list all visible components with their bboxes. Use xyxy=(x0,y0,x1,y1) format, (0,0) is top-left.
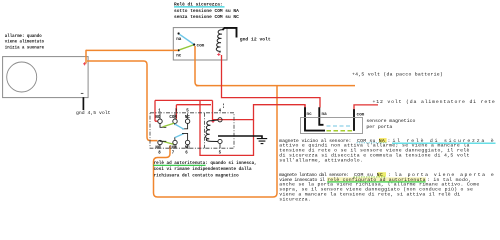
bottom pole cyan lever COM-NC xyxy=(175,134,184,138)
red wire: COM3 riser xyxy=(175,105,177,119)
pin4 top dash stub xyxy=(223,104,225,109)
dotted underline COM su NA xyxy=(357,142,387,144)
safety relay lever na-com (cyan, open) xyxy=(180,34,194,44)
sensor green dashed contact (nc position) xyxy=(327,130,353,132)
alarm - terminal xyxy=(81,92,84,94)
green underline relè configurato ad autoritenuta xyxy=(327,181,425,183)
yellow highlight NA xyxy=(379,138,387,143)
alarm + terminal xyxy=(83,62,86,65)
right paragraph 2 xyxy=(279,172,495,203)
alarm caption text xyxy=(5,34,45,51)
latching coil pin4 circle xyxy=(218,118,222,122)
bottom pole green lever COM-NO xyxy=(163,141,174,144)
sensor black wire nc xyxy=(305,107,325,130)
latching coil pin5 circle xyxy=(218,139,222,143)
svg-text:com: com xyxy=(357,113,365,118)
svg-text:richiusura del contatto magnet: richiusura del contatto magnetico xyxy=(154,173,240,178)
svg-text:sensore magnetico: sensore magnetico xyxy=(366,118,415,124)
pale highlight phrase xyxy=(327,177,426,181)
yellow highlight NC xyxy=(378,172,387,177)
orange wire: alarm+ to safety relay nc xyxy=(86,49,178,51)
safety relay title xyxy=(174,2,239,20)
svg-text:gnd 12 volt: gnd 12 volt xyxy=(240,37,271,43)
red wire: latching NO1 riser xyxy=(155,100,158,121)
sensor black wire na xyxy=(319,107,323,125)
red wire: safety coil to sensor na xyxy=(222,55,321,108)
latching coil + mark xyxy=(212,120,215,123)
svg-text:com: com xyxy=(197,44,205,49)
red wire: top link NO1-COM3-selfhold xyxy=(155,99,213,101)
svg-text:viene alimentato: viene alimentato xyxy=(5,40,45,45)
red wire: COM3 horizontal xyxy=(176,104,211,106)
ground symbol xyxy=(257,139,267,144)
bottom pole NC stub+foot xyxy=(182,133,188,140)
safety relay contact com xyxy=(193,43,195,45)
svg-text:allarme: quando: allarme: quando xyxy=(5,34,42,39)
safety relay contact na xyxy=(178,32,180,34)
svg-text:NO: NO xyxy=(155,146,160,150)
svg-text:sull'allarme, attivandolo.: sull'allarme, attivandolo. xyxy=(279,157,363,163)
sensor cyan dashed contact (na position) xyxy=(327,125,352,127)
svg-text:così vi rimane indipendentemen: così vi rimane indipendentemente dalla xyxy=(154,167,252,172)
latching relay internal divider xyxy=(204,113,206,148)
svg-text:senza tensione COM su NC: senza tensione COM su NC xyxy=(174,14,239,20)
svg-text:na: na xyxy=(322,112,328,117)
latching coil body xyxy=(206,120,218,142)
safety relay coil gnd wire xyxy=(223,28,237,38)
safety relay contact nc xyxy=(178,49,180,51)
black wire pin5 to ground xyxy=(218,136,262,138)
svg-text:nc: nc xyxy=(307,112,313,117)
svg-text:+12 volt (da alimentatore di r: +12 volt (da alimentatore di rete xyxy=(373,99,496,105)
top pin stubs xyxy=(160,114,188,119)
red wire: +12 to sensor com xyxy=(354,105,378,110)
alarm gnd wire xyxy=(82,97,84,110)
top pole green lever COM-NO xyxy=(163,123,174,127)
right paragraph 1 xyxy=(279,138,495,164)
svg-text:na: na xyxy=(176,37,182,42)
svg-text:gnd 4,5 volt: gnd 4,5 volt xyxy=(76,110,111,116)
safety relay U1 box xyxy=(173,28,227,60)
sensor red drop nc xyxy=(304,105,306,109)
orange wire: alarm+ up stub xyxy=(85,50,87,62)
svg-text:+4,5 volt (da pacco batterie): +4,5 volt (da pacco batterie) xyxy=(352,71,443,77)
orange wire: safety relay com down xyxy=(195,46,199,86)
top pole COM stub xyxy=(174,123,177,125)
red wire: selfhold drop to pin4 line xyxy=(213,100,306,119)
orange wire: +4,5V branch around text to pin7 xyxy=(154,86,278,197)
sensor black wire com xyxy=(353,109,355,131)
latching relay K1 dash-dot case xyxy=(150,113,234,148)
svg-text:sotto tensione COM su NA: sotto tensione COM su NA xyxy=(174,8,239,14)
orange wire: alarm+ to latching relay pin8 xyxy=(87,61,158,141)
svg-text:NC: NC xyxy=(185,146,190,150)
latching relay caption xyxy=(153,161,257,178)
red box around latching coil xyxy=(200,100,254,155)
safety relay coil + mark xyxy=(217,53,220,56)
top pole NC stub+foot xyxy=(182,123,188,128)
sensor box xyxy=(301,118,363,134)
svg-text:inizia a suonare: inizia a suonare xyxy=(5,45,45,50)
orange wire: +4,5V rail xyxy=(196,85,355,87)
top pole NO stub+foot xyxy=(160,123,166,127)
svg-text:per porta: per porta xyxy=(366,124,392,130)
top contacts circles xyxy=(158,119,162,123)
cyan underline il relè di sicurezza è xyxy=(392,142,496,144)
bottom pole COM stub xyxy=(174,137,176,140)
svg-text:COM: COM xyxy=(169,146,177,150)
svg-text:sicurezza.: sicurezza. xyxy=(279,196,311,202)
safety relay coil xyxy=(216,30,222,53)
bottom pole NO stub+foot xyxy=(160,140,166,141)
svg-text:nc: nc xyxy=(176,54,182,59)
bottom pin stubs xyxy=(160,144,220,149)
bottom contacts circles xyxy=(158,140,162,144)
top pole cyan lever COM-NC xyxy=(175,124,184,129)
alarm box (siren) xyxy=(3,57,89,98)
alarm speaker circle xyxy=(7,62,37,92)
safety relay lever nc-com (green, closed) xyxy=(180,45,194,50)
dotted green underline COM su NC xyxy=(354,176,386,178)
